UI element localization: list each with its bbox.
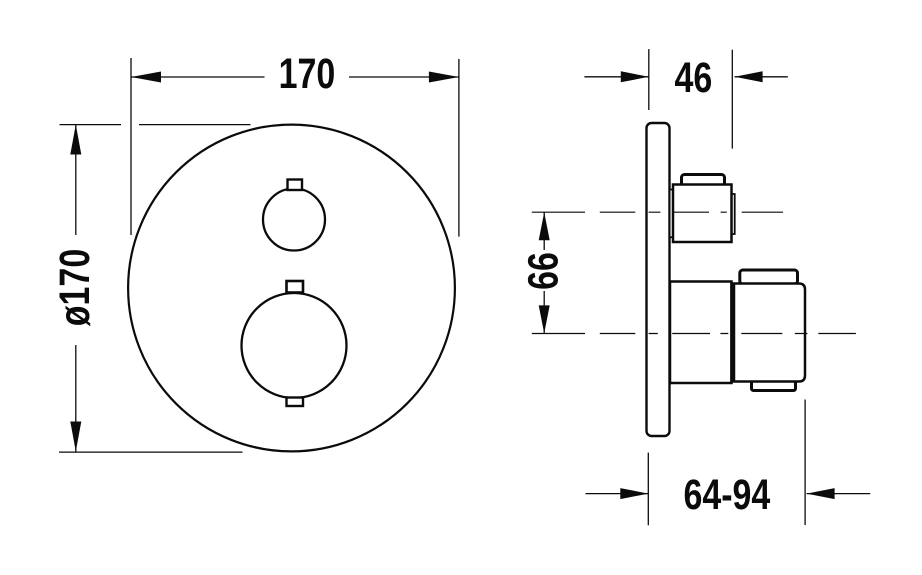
dimension 64-94: dimension line left segment (586, 493, 649, 495)
dimension 66: dimension line upper segment (543, 212, 545, 250)
dimension ø170: top extension line segment a (60, 124, 122, 126)
svg-text:170: 170 (279, 50, 336, 98)
front view: upper knob circle (263, 189, 325, 251)
svg-text:66: 66 (520, 252, 568, 290)
dimension ø170: down arrowhead (70, 422, 81, 452)
dimension 46: right extension line (731, 50, 733, 149)
dimension 66: up arrowhead (539, 212, 550, 240)
side view: upper knob body (673, 185, 732, 243)
side view: lower knob head rear thick edge (731, 284, 736, 382)
dimension 64-94: left extension line (647, 453, 649, 526)
dimension 170: dimension line left segment (131, 76, 265, 78)
side view: upper knob cap (682, 175, 725, 189)
side view: upper knob centerline (532, 211, 661, 213)
dimension 46: right arrowhead pointing left (735, 71, 763, 82)
front view: lower knob top tab (287, 281, 304, 293)
dimension 64-94: right extension line (804, 400, 806, 526)
side view: wall plate cross-section (647, 123, 670, 436)
side view: upper knob front face (732, 194, 735, 234)
dimension 46: left arrowhead pointing right (621, 71, 649, 82)
side view: lower knob centerline (532, 333, 658, 335)
dimension 66: down arrowhead (539, 305, 550, 333)
dimension ø170: dimension line lower segment (75, 345, 77, 452)
dimension ø170: dimension line upper segment (75, 125, 77, 236)
dimension 64-94: right arrowhead pointing left (807, 488, 835, 499)
dimension 46: dimension line left segment (584, 76, 648, 78)
side view: lower knob body (670, 282, 732, 384)
dimension 170: right extension line (458, 59, 460, 237)
front view: upper knob index tab (288, 180, 303, 191)
dimension 170: right arrowhead (429, 72, 459, 83)
dimension 64-94: dimension line right segment (807, 493, 871, 495)
side view: lower knob top flange (740, 270, 798, 284)
front view: lower knob bottom tab (287, 398, 304, 407)
dimension ø170: up arrowhead (70, 125, 81, 155)
dimension 170: dimension line right segment (349, 76, 459, 78)
dimension 170: left arrowhead (131, 72, 161, 83)
svg-text:ø170: ø170 (51, 249, 99, 326)
dimension ø170: bottom extension line (59, 451, 243, 453)
front view: faceplate circle ø170 (128, 125, 455, 452)
dimension 170: left extension line (130, 58, 132, 235)
side view: upper knob rear step (670, 190, 674, 238)
side view: lower knob head (732, 284, 806, 382)
svg-text:64-94: 64-94 (683, 471, 770, 519)
dimension 46: left extension line (648, 49, 650, 110)
dimension 46: dimension line right segment (735, 76, 788, 78)
dimension 64-94: left arrowhead pointing right (620, 488, 648, 499)
dimension ø170: top extension line segment b (139, 124, 251, 126)
dimension 66: dimension line lower segment (543, 291, 545, 333)
front view: lower knob circle (242, 293, 347, 398)
svg-text:46: 46 (675, 54, 713, 102)
side view: lower knob bottom flange (752, 378, 796, 391)
side view: upper knob centerline inside body (673, 211, 783, 213)
side view: lower knob centerline inside body (672, 333, 856, 335)
